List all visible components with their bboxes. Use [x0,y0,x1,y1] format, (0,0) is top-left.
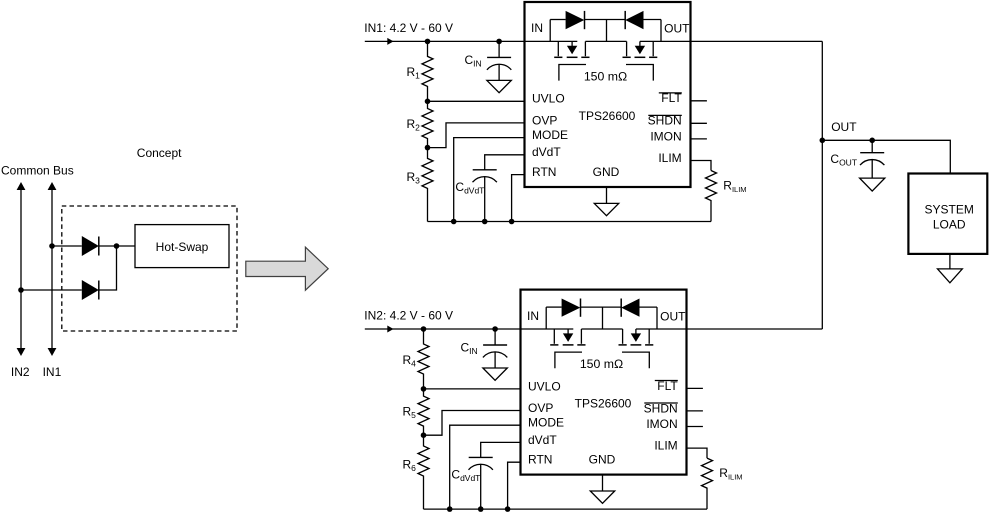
capacitor CdVdT (ch1) [484,169,486,171]
transistor Q2 pass FET (U1) [626,41,628,56]
wire ILIM to RILIM [687,448,708,458]
svg-text:CIN: CIN [465,53,482,69]
svg-text:Concept: Concept [137,146,182,160]
junction: MODE wire / rail [447,506,453,512]
op-amp / IC U1 TPS26600 box [525,2,691,187]
block SYSTEM LOAD [908,174,987,254]
svg-text:LOAD: LOAD [933,217,966,231]
junction: COUT tap [869,138,875,144]
wire internal OUT rail (U1) [640,40,691,42]
wire internal node between FETs (U2) [581,328,622,330]
svg-text:CdVdT: CdVdT [451,468,480,484]
svg-text:Hot-Swap: Hot-Swap [156,240,209,254]
pin stub SHDN (U1) [691,122,707,124]
arrowhead on IN2 wire [387,326,393,333]
diode D1 body diode of Q1 (U2) [562,299,581,317]
junction: RTN wire / rail [505,506,511,512]
svg-text:RTN: RTN [532,165,556,179]
svg-text:Common Bus: Common Bus [1,163,74,177]
junction: IN2 / CIN tap [492,326,498,332]
wire IN1 input rail [365,40,578,42]
wire OVP to divider [424,411,521,436]
arrowhead on IN1 wire [387,38,393,45]
wire ground return rail [428,221,712,223]
junction: R4/R5 node (UVLO) [421,386,427,392]
svg-text:OUT: OUT [831,120,857,134]
svg-text:IN: IN [527,309,539,323]
junction: RTN wire / rail [509,219,515,225]
svg-text:RILIM: RILIM [723,179,746,195]
wire internal OUT rail (U2) [636,328,687,330]
junction: IN1 bus tap [49,243,55,249]
wire common bus line for IN1 (double arrow) [51,189,53,349]
capacitor CIN (ch2) [494,329,496,345]
svg-text:RILIM: RILIM [719,466,742,482]
wire IN1 bus to diode DA [52,245,82,247]
wire internal node between FETs (U1) [585,40,626,42]
svg-text:SYSTEM: SYSTEM [925,203,974,217]
svg-text:MODE: MODE [532,128,568,142]
wire dVdT to CdVdT [481,442,521,457]
svg-text:150 mΩ: 150 mΩ [584,70,627,84]
ground symbol at COUT [860,178,885,191]
svg-text:dVdT: dVdT [528,433,557,447]
junction: R5/R6 node (OVP) [421,432,427,438]
wire IN2 bus to diode DB [21,289,82,291]
svg-text:R5: R5 [403,405,417,421]
diode DB (concept, from IN2) [82,280,99,300]
wire RTN to ground rail [512,175,525,222]
wire UVLO to divider [424,388,521,390]
wire RTN to ground rail [508,462,521,509]
pin stub IMON (U2) [687,426,703,428]
diode D2 body diode of Q2 (U2) [621,299,639,317]
svg-text:IMON: IMON [646,417,677,431]
wire OVP to divider [428,123,525,148]
resistor R6 [418,435,429,509]
ground symbol at CIN (ch2) [483,368,507,380]
svg-text:TPS26600: TPS26600 [579,109,636,123]
transistor Q1 pass FET (U2) [553,329,555,344]
diode D1 body diode of Q1 (U1) [566,11,585,29]
junction: concept OR node [114,243,120,249]
resistor R4 [418,329,429,389]
wire ILIM to RILIM [691,161,712,171]
svg-text:TPS26600: TPS26600 [575,397,632,411]
resistor RILIM (ch1) [706,171,717,222]
resistor R3 [422,148,433,222]
svg-text:R3: R3 [407,170,421,186]
capacitor CdVdT (ch2) [480,456,482,458]
junction: IN1 / CIN tap [496,39,502,45]
wire U2 OUT to output bus [687,328,823,330]
block Hot-Swap [135,225,229,268]
pin stub FLT (U1) [691,100,707,102]
svg-text:OUT: OUT [664,22,690,36]
resistor R2 [422,101,433,147]
capacitor COUT [871,140,873,152]
svg-text:OVP: OVP [532,113,557,127]
svg-text:IN2: IN2 [11,365,30,379]
ground symbol at system load [949,254,951,269]
svg-text:IN: IN [531,21,543,35]
transistor Q2 pass FET (U2) [622,329,624,344]
wire common bus line for IN2 (double arrow) [20,189,22,349]
svg-text:CdVdT: CdVdT [455,180,484,196]
junction: IN1 / divider tap [425,39,431,45]
wire dVdT to CdVdT [485,155,525,170]
junction: MODE wire / rail [451,219,457,225]
wire MODE to ground rail [454,138,525,222]
svg-text:CIN: CIN [461,341,478,357]
ground symbol at CIN (ch1) [487,80,511,92]
junction: CdVdT / rail [482,219,488,225]
resistor R5 [418,389,429,435]
diode DA (concept, from IN1) [82,236,99,256]
concept dashed boundary box [62,206,237,331]
wire DA to hot-swap input node [99,245,135,247]
svg-text:MODE: MODE [528,416,564,430]
svg-text:R1: R1 [407,65,421,81]
svg-text:ILIM: ILIM [658,151,681,165]
resistor RILIM (ch2) [702,458,713,509]
svg-text:dVdT: dVdT [532,145,561,159]
svg-text:IN2: 4.2 V - 60 V: IN2: 4.2 V - 60 V [364,309,453,323]
wire ground return rail [424,508,708,510]
resistor R1 [422,41,433,101]
junction: OUT node [820,138,826,144]
svg-text:IN1: 4.2 V - 60 V: IN1: 4.2 V - 60 V [364,21,453,35]
junction: CdVdT / rail [478,506,484,512]
wire OUT node to system load [822,140,950,173]
wire U1 OUT to output bus [691,40,823,42]
wire body-diode loop (U1) [549,20,551,42]
block arrow concept-to-implementation [246,247,328,290]
capacitor CIN (ch1) [498,41,500,57]
ground symbol at GND pin (U1) [606,187,608,203]
wire IN2 input rail [365,328,574,330]
svg-text:GND: GND [593,165,620,179]
svg-text:RTN: RTN [528,453,552,467]
wire MODE to ground rail [450,425,521,509]
diode D2 body diode of Q2 (U1) [625,11,643,29]
junction: IN2 bus tap [18,287,24,293]
svg-text:IMON: IMON [650,129,681,143]
pin stub FLT (U2) [687,387,703,389]
pin stub IMON (U1) [691,138,707,140]
svg-text:R6: R6 [403,458,417,474]
svg-text:IN1: IN1 [43,365,62,379]
svg-text:R2: R2 [407,117,421,133]
wire body-diode loop (U2) [545,307,547,329]
ground symbol at GND pin (U2) [602,475,604,491]
wire DB up to OR node [99,246,117,290]
junction: R2/R3 node (OVP) [425,145,431,151]
wire output bus vertical [821,41,823,329]
svg-text:OVP: OVP [528,401,553,415]
svg-text:R4: R4 [403,353,417,369]
svg-text:150 mΩ: 150 mΩ [580,357,623,371]
pin stub SHDN (U2) [687,410,703,412]
junction: R1/R2 node (UVLO) [425,99,431,105]
wire UVLO to divider [428,100,525,102]
svg-text:COUT: COUT [830,152,857,168]
transistor Q1 pass FET (U1) [557,41,559,56]
op-amp / IC U2 TPS26600 box [521,290,687,475]
svg-text:OUT: OUT [660,309,686,323]
svg-text:UVLO: UVLO [532,92,565,106]
svg-text:ILIM: ILIM [654,439,677,453]
svg-text:GND: GND [589,453,616,467]
svg-text:UVLO: UVLO [528,379,561,393]
junction: IN2 / divider tap [421,326,427,332]
